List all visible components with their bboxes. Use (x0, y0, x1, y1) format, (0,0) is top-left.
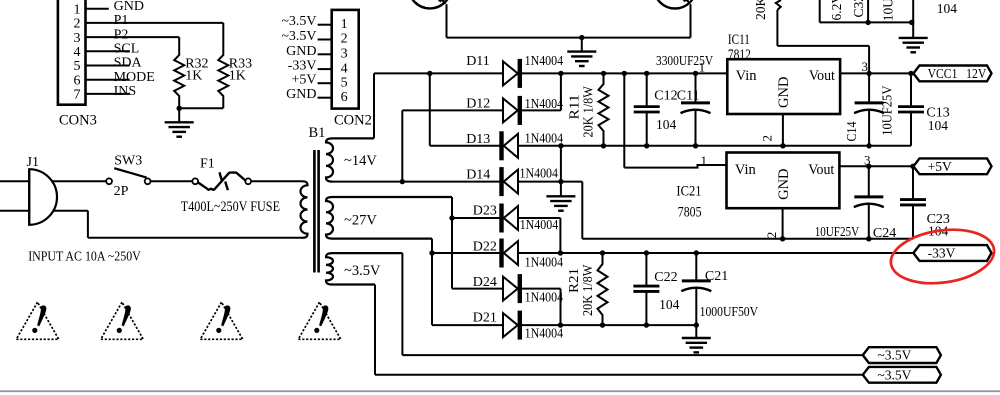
svg-text:6: 6 (341, 90, 348, 105)
svg-text:Vout: Vout (808, 162, 834, 178)
net flag ~3.5V (1) (863, 347, 941, 363)
svg-text:20K 1/8W: 20K 1/8W (581, 86, 596, 138)
wire D24 row left (452, 288, 503, 290)
junction dot (644, 143, 649, 148)
svg-text:SW3: SW3 (114, 153, 142, 168)
svg-text:+5V: +5V (928, 159, 952, 174)
svg-text:C11: C11 (677, 89, 700, 104)
wire IC11 Vout row (840, 72, 913, 74)
bottom border line (0, 390, 1000, 392)
svg-text:104: 104 (656, 117, 677, 132)
svg-text:B1: B1 (309, 125, 326, 141)
wire ~14V top tap vertical (373, 73, 375, 138)
junction dot (558, 143, 563, 148)
wire CON3 pin 7 stub (86, 93, 130, 95)
svg-text:6.2V: 6.2V (829, 0, 844, 21)
junction dot (866, 164, 871, 169)
svg-text:D21: D21 (473, 311, 497, 326)
wire IC21 GND pin (782, 208, 784, 239)
ground emitter rail (567, 52, 596, 66)
capacitor C32 lead (cut off) (867, 0, 869, 22)
junction dot (866, 71, 871, 76)
capacitor C24 (854, 166, 884, 239)
wire D21 cathode row (522, 324, 696, 326)
wire D12 feed vertical (401, 110, 403, 181)
diode D21 (503, 311, 520, 340)
junction dot (622, 71, 627, 76)
wire D12 row left (402, 109, 503, 111)
wire GND rail under IC21 (582, 238, 913, 240)
svg-text:20K 1/8W: 20K 1/8W (580, 264, 595, 316)
wire 20K to VCC node (777, 45, 869, 47)
svg-text:1N4004: 1N4004 (525, 53, 564, 68)
junction dot (644, 322, 649, 327)
svg-text:104: 104 (937, 1, 958, 16)
wire CON3 pin 5 stub (86, 65, 130, 67)
junction dot (558, 179, 563, 184)
svg-text:CON2: CON2 (334, 113, 372, 129)
svg-text:F1: F1 (200, 157, 215, 172)
wire D22 row left (432, 252, 500, 254)
svg-text:Vin: Vin (736, 68, 758, 84)
svg-text:+5V: +5V (291, 73, 316, 88)
op-amp IC21 7805 regulator (727, 153, 840, 209)
wire ~3.5V top lead down (401, 253, 403, 355)
svg-text:4: 4 (74, 45, 81, 60)
transistor Q2 (cut off at top) (654, 0, 696, 9)
junction dot (693, 71, 698, 76)
svg-text:7812: 7812 (728, 47, 751, 63)
wire J1 bottom lead (0, 210, 29, 212)
junction dot (866, 143, 871, 148)
op-amp IC11 7812 regulator (727, 59, 840, 114)
diode D23 (502, 204, 519, 233)
junction dot (908, 71, 913, 76)
capacitor C21 (681, 253, 711, 325)
wire J1 bottom to corner (53, 210, 88, 212)
resistor R33 (218, 23, 228, 108)
svg-text:1N4004: 1N4004 (525, 326, 564, 341)
svg-text:C22: C22 (654, 270, 677, 285)
connector CON2 (332, 10, 359, 109)
switch SW3 (106, 168, 150, 184)
svg-text:10UF25V: 10UF25V (815, 224, 860, 239)
svg-text:~3.5V: ~3.5V (877, 367, 911, 382)
wire CON2 pin 5 stub (318, 82, 332, 84)
junction dot (558, 322, 563, 327)
wire IC21 Vin feed horizontal (624, 165, 726, 168)
junction dot (780, 236, 785, 241)
wire 20K down (776, 10, 778, 46)
wire CON3 pin 4 stub (86, 50, 130, 52)
svg-text:VCC1 12V: VCC1 12V (928, 66, 987, 81)
svg-text:Vout: Vout (809, 68, 835, 84)
svg-text:1N4004: 1N4004 (520, 217, 559, 232)
junction dot (910, 164, 915, 169)
wire J1 top lead (0, 180, 29, 182)
svg-text:1N4004: 1N4004 (525, 96, 564, 111)
svg-text:5: 5 (74, 59, 81, 74)
wire ground stem (560, 182, 562, 197)
svg-text:INS: INS (114, 84, 137, 99)
svg-text:R11: R11 (567, 95, 582, 120)
junction dot (694, 250, 699, 255)
wire CON2 pin 6 stub (318, 97, 332, 99)
net flag VCC1 12V (913, 66, 991, 82)
capacitor C12 (634, 73, 660, 145)
transformer B1 primary winding (301, 181, 308, 238)
junction dot (694, 322, 699, 327)
diode D11 (503, 59, 520, 88)
svg-text:1K: 1K (229, 69, 246, 84)
svg-text:GND: GND (776, 168, 792, 199)
resistor R32 (174, 37, 184, 108)
svg-text:10UF25V: 10UF25V (880, 85, 895, 135)
svg-text:MODE: MODE (114, 70, 155, 85)
svg-text:D22: D22 (473, 240, 497, 255)
wire ~3.5V row 2 (375, 374, 863, 376)
svg-text:GND: GND (286, 44, 316, 59)
junction node AC1 dot (427, 71, 432, 76)
wire ground stem (178, 108, 180, 122)
wire IC11 GND pin (782, 114, 784, 146)
svg-text:D24: D24 (473, 275, 497, 290)
wire AC1 down to D13 (429, 73, 431, 145)
svg-text:D12: D12 (466, 96, 490, 111)
svg-text:SDA: SDA (114, 56, 143, 71)
junction dot (429, 250, 434, 255)
svg-text:1: 1 (74, 2, 81, 17)
wire D14 anode row (518, 181, 582, 183)
svg-text:GND: GND (286, 87, 316, 102)
svg-text:7805: 7805 (678, 205, 702, 221)
svg-text:GND: GND (776, 77, 792, 108)
capacitor C14 (854, 73, 884, 145)
svg-text:1N4004: 1N4004 (525, 255, 564, 270)
ground top right (899, 38, 928, 52)
junction dot (644, 71, 649, 76)
svg-text:104: 104 (928, 118, 949, 133)
junction dot (400, 179, 405, 184)
svg-text:1: 1 (341, 17, 348, 32)
svg-text:~14V: ~14V (344, 153, 377, 169)
svg-text:IC11: IC11 (728, 32, 750, 48)
svg-text:J1: J1 (27, 155, 39, 170)
junction dot (865, 20, 870, 25)
warning triangle symbol 1 (16, 302, 59, 339)
svg-text:3: 3 (74, 31, 81, 46)
wire GND down right side (581, 182, 583, 239)
svg-text:7: 7 (74, 88, 81, 103)
svg-text:C14: C14 (844, 121, 859, 141)
junction dot (693, 143, 698, 148)
svg-text:~27V: ~27V (344, 213, 377, 229)
svg-text:2: 2 (760, 135, 775, 142)
svg-text:2: 2 (341, 32, 348, 47)
wire D23 row left (452, 217, 500, 219)
wire J1 to SW3 (51, 180, 106, 182)
diode D22 (502, 239, 519, 268)
svg-text:R21: R21 (566, 268, 581, 293)
svg-text:10UF25V: 10UF25V (881, 0, 896, 21)
svg-text:-33V: -33V (928, 246, 956, 261)
junction dot (601, 71, 606, 76)
wire CON3 pin 6 stub (86, 79, 130, 81)
svg-text:3: 3 (341, 47, 348, 62)
transformer B1 core (314, 150, 318, 273)
svg-text:4: 4 (341, 61, 348, 76)
wire D23 anode right (518, 217, 560, 219)
svg-text:P1: P1 (114, 13, 129, 28)
wire ~3.5V row 1 (402, 354, 862, 356)
svg-text:~3.5V: ~3.5V (281, 29, 316, 44)
svg-text:INPUT AC 10A ~250V: INPUT AC 10A ~250V (28, 249, 141, 264)
svg-text:~3.5V: ~3.5V (281, 14, 316, 29)
wire F1 to transformer primary (251, 180, 302, 182)
wire CON3 pin 2 stub (86, 22, 224, 24)
svg-text:2P: 2P (114, 184, 129, 199)
junction dot (601, 143, 606, 148)
wire ground stem (695, 325, 697, 338)
svg-text:20K: 20K (753, 0, 768, 20)
junction dot (558, 250, 563, 255)
svg-text:2: 2 (764, 232, 779, 239)
svg-text:6: 6 (74, 73, 81, 88)
svg-text:D11: D11 (466, 54, 490, 69)
svg-text:SCL: SCL (114, 42, 140, 57)
svg-text:1K: 1K (185, 69, 202, 84)
connector J1 (AC plug) (29, 169, 57, 225)
resistor 20K (cut off) (776, 0, 781, 10)
wire IC21 Vout row (+5V) (839, 165, 913, 167)
ground under R32/R33 (165, 122, 194, 136)
wire R32-R33 bottom join (179, 107, 223, 109)
annotation red circle around -33V (887, 224, 997, 290)
svg-text:D14: D14 (466, 168, 490, 183)
wire ~3.5V bottom lead down (374, 285, 376, 375)
svg-text:P2: P2 (114, 27, 129, 42)
transformer secondary winding ~14V (326, 138, 374, 181)
svg-text:1: 1 (699, 60, 706, 75)
wire D23 anode down to -33V rail (559, 218, 561, 253)
resistor R21 (598, 253, 608, 325)
capacitor C23 (900, 166, 926, 239)
svg-text:1N4004: 1N4004 (525, 290, 564, 305)
net flag -33V (913, 245, 991, 261)
transistor Q1 (cut off at top) (409, 0, 452, 8)
svg-text:Vin: Vin (735, 162, 757, 178)
junction dot (644, 250, 649, 255)
wire ~27V bottom lead vertical (431, 239, 433, 326)
wire down to VCC rail (868, 46, 870, 74)
wire D13 row left (430, 145, 500, 147)
wire vertical (87, 211, 89, 238)
svg-text:D13: D13 (466, 132, 490, 147)
svg-text:1N4004: 1N4004 (525, 131, 564, 146)
svg-text:~3.5V: ~3.5V (344, 263, 381, 279)
svg-text:5: 5 (341, 75, 348, 90)
wire D11 row left (374, 72, 503, 74)
svg-text:104: 104 (659, 297, 680, 312)
wire top-right gnd rail (820, 21, 914, 23)
wire CON2 pin 3 stub (318, 53, 332, 55)
wire vertical D12-D11 (560, 73, 562, 110)
svg-text:D23: D23 (473, 204, 497, 219)
junction dot (558, 71, 563, 76)
wire ~14V bottom tap to D14 (332, 181, 500, 183)
warning triangle symbol 4 (298, 302, 341, 339)
svg-text:C21: C21 (705, 269, 728, 284)
wire bottom to transformer primary (88, 237, 302, 239)
svg-text:~3.5V: ~3.5V (877, 348, 911, 363)
wire CON2 pin 4 stub (318, 68, 332, 70)
warning triangle symbol 2 (101, 302, 144, 339)
wire D21 row left (432, 324, 503, 326)
wire D11 cathode row (522, 72, 727, 74)
warning triangle symbol 3 (200, 302, 243, 339)
junction dot (600, 250, 605, 255)
diode D12 (503, 96, 520, 125)
wire Q2 emitter down (690, 4, 692, 37)
wire D13 anode rail (GND rail) (518, 145, 911, 147)
svg-text:-33V: -33V (288, 59, 317, 74)
junction dot (780, 143, 785, 148)
svg-text:GND: GND (114, 0, 144, 14)
wire SW3 to F1 (151, 180, 193, 182)
svg-text:1: 1 (701, 153, 708, 168)
junction dot (866, 236, 871, 241)
wire CON2 pin 2 stub (318, 39, 332, 41)
svg-text:1N4004: 1N4004 (520, 166, 559, 181)
junction dot (909, 20, 914, 25)
wire Q1 emitter down (446, 4, 448, 37)
svg-text:2: 2 (74, 17, 81, 32)
wire ground stem (581, 38, 583, 52)
svg-text:IC21: IC21 (676, 184, 701, 200)
svg-text:CON3: CON3 (59, 113, 97, 129)
diode D24 (503, 274, 520, 303)
wire D24 down to D21 row (560, 289, 562, 326)
ground under D14 (546, 196, 575, 210)
transformer secondary winding ~27V (326, 197, 452, 239)
connector CON3 (58, 0, 86, 105)
wire CON2 pin 1 stub (318, 24, 332, 26)
wire CON3 pin 1 stub (86, 8, 109, 10)
wire -33V rail (518, 252, 913, 254)
diode D14 (502, 167, 519, 196)
wire CON3 pin 3 stub (86, 36, 180, 38)
transformer secondary winding ~3.5V (326, 253, 402, 284)
junction dot (449, 215, 454, 220)
capacitor C22 (633, 253, 659, 325)
wire IC21 Vin feed vertical (623, 73, 625, 167)
junction dot (600, 322, 605, 327)
net flag ~3.5V (2) (863, 367, 941, 383)
wire ~27V top lead vertical (451, 197, 453, 289)
wire emitter rail (447, 37, 691, 39)
capacitor C11 (681, 73, 711, 145)
junction dot (579, 35, 584, 40)
wire vertical D13-D14 (560, 146, 562, 182)
ground under C21 (682, 338, 711, 352)
diode D13 (502, 131, 519, 160)
junction dot (177, 106, 182, 111)
svg-text:C12: C12 (654, 89, 677, 104)
wire D24 cathode right (522, 288, 561, 290)
resistor R11 (599, 73, 609, 145)
capacitor 10UF lead (cut off) (912, 0, 914, 38)
wire D12 cathode to D11 row (522, 109, 561, 111)
capacitor C13 (898, 73, 924, 145)
fuse F1 (192, 172, 251, 190)
svg-text:C32: C32 (851, 0, 866, 18)
svg-text:T400L~250V FUSE: T400L~250V FUSE (181, 199, 280, 215)
net flag +5V (913, 158, 991, 174)
wire zener 6.2V lead (cut off) (819, 0, 821, 22)
svg-text:1000UF50V: 1000UF50V (700, 304, 759, 319)
